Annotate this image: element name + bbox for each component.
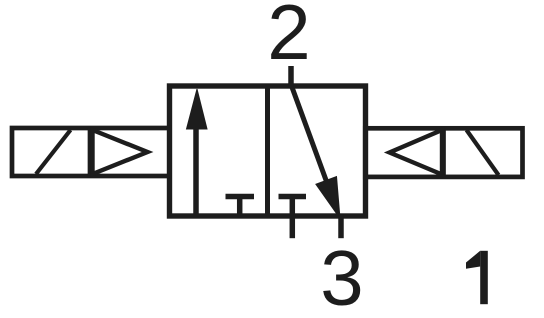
port label 1: [466, 251, 488, 304]
left pilot triangle: [93, 130, 148, 174]
svg-text:2: 2: [267, 0, 310, 76]
blocked port symbol T (right position): [279, 197, 307, 217]
flow arrow (left position) shaft: [193, 126, 199, 214]
left actuator divider: [88, 128, 93, 176]
blocked port symbol T (left position): [226, 197, 255, 215]
svg-text:3: 3: [320, 234, 363, 318]
valve body center divider: [265, 86, 270, 216]
right actuator (solenoid) box: [365, 128, 522, 177]
right actuator divider: [441, 128, 446, 177]
port 2 stub wire: [288, 66, 294, 88]
right pilot triangle: [390, 130, 443, 175]
valve body outer box (two positions): [170, 86, 366, 216]
flow arrow (left position) head: [187, 89, 208, 129]
left solenoid coil diagonal: [36, 130, 71, 174]
flow arrow 2-3 (right position) head: [316, 177, 340, 219]
port 3 stub wire: [290, 214, 296, 238]
left actuator (solenoid) box: [12, 128, 170, 176]
flow arrow 2-3 (right position) shaft: [291, 85, 330, 192]
right solenoid coil diagonal: [467, 130, 499, 175]
port 1 stub wire: [338, 214, 344, 238]
